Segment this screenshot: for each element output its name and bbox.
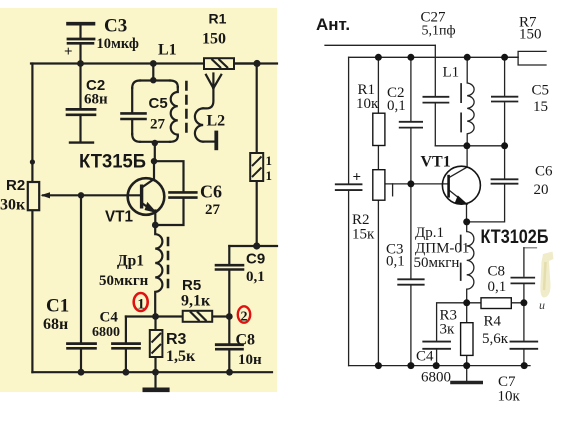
svg-text:68н: 68н bbox=[84, 92, 108, 108]
junction ground stub bbox=[463, 362, 470, 369]
svg-text:C4: C4 bbox=[416, 349, 434, 365]
capacitor C1 plates bbox=[68, 342, 96, 345]
resistor R7 box open right bbox=[518, 51, 546, 65]
watermark bbox=[539, 252, 554, 313]
svg-text:1,5к: 1,5к bbox=[166, 348, 196, 365]
svg-text:27: 27 bbox=[205, 202, 221, 218]
junction C7 on ground rail bbox=[521, 362, 528, 369]
svg-text:КТ315Б: КТ315Б bbox=[79, 152, 146, 173]
junction C4 on ground rail bbox=[433, 362, 440, 369]
inductor L2 bbox=[195, 108, 203, 141]
svg-text:C8: C8 bbox=[236, 332, 256, 349]
wire antenna down through rail bbox=[434, 45, 436, 95]
svg-text:R4: R4 bbox=[484, 314, 502, 330]
capacitor C3 plates bbox=[398, 278, 424, 280]
node mark 1 red bbox=[134, 293, 148, 311]
svg-text:50мкгн: 50мкгн bbox=[99, 273, 149, 289]
choke core dashes bbox=[460, 236, 462, 281]
wire C9 horizontal bbox=[229, 245, 277, 247]
wire right branch vertical bbox=[256, 64, 258, 154]
svg-text:C6: C6 bbox=[200, 182, 222, 202]
junction L1 on tank bottom bbox=[463, 142, 470, 149]
svg-text:C5: C5 bbox=[149, 95, 168, 112]
svg-text:C5: C5 bbox=[532, 83, 550, 99]
svg-text:10к: 10к bbox=[498, 389, 521, 405]
wire top rail bbox=[349, 56, 518, 58]
svg-text:R5: R5 bbox=[182, 277, 201, 294]
resistor R3 box bbox=[150, 330, 163, 357]
transistor VT1 base bar right bbox=[447, 175, 450, 198]
junction emitter node bbox=[463, 218, 470, 225]
svg-text:C9: C9 bbox=[246, 251, 265, 268]
svg-text:L1: L1 bbox=[158, 42, 177, 59]
left schematic background bbox=[0, 8, 277, 392]
choke Dr.1 bbox=[467, 222, 474, 303]
wire tank bottom bbox=[435, 145, 504, 147]
transistor VT1 collector lead bbox=[450, 146, 467, 177]
ground bar bbox=[452, 381, 481, 385]
junction right branch on top rail bbox=[253, 60, 260, 67]
junction collector / C6 top bbox=[151, 158, 157, 164]
junction base line / C1 bbox=[78, 192, 84, 198]
junction R4 / C8 node bbox=[520, 299, 527, 306]
junction choke bottom node bbox=[463, 299, 470, 306]
resistor R4 leads bbox=[467, 302, 524, 304]
svg-text:L2: L2 bbox=[207, 113, 226, 130]
potentiometer R2 box right bbox=[373, 170, 385, 201]
junction C5 on top rail bbox=[501, 54, 508, 61]
resistor R7 lead bbox=[505, 56, 518, 58]
svg-text:C3: C3 bbox=[104, 16, 127, 37]
resistor R4 box right bbox=[481, 298, 511, 309]
node 2 junction bbox=[226, 313, 233, 320]
svg-text:10к: 10к bbox=[356, 96, 379, 112]
wire stub to tank bbox=[152, 64, 154, 81]
junction C2 on top rail bbox=[407, 54, 414, 61]
inductor coil right arm of tank bbox=[171, 87, 178, 136]
ground bar bbox=[145, 387, 168, 392]
svg-text:L1: L1 bbox=[443, 65, 460, 81]
capacitor C27 plates bbox=[423, 96, 448, 98]
svg-text:5,1пф: 5,1пф bbox=[422, 24, 456, 39]
junction C4 on ground rail bbox=[123, 369, 130, 376]
junction L1 on top rail bbox=[464, 54, 471, 61]
transistor VT1 emitter arrow bbox=[145, 203, 156, 213]
capacitor C1 lead from base node bbox=[80, 195, 82, 342]
resistor R1 box right bbox=[373, 113, 385, 145]
capacitor C7 plates bbox=[511, 341, 538, 343]
svg-text:Др.1: Др.1 bbox=[415, 225, 444, 241]
junction R2 on ground rail bbox=[375, 362, 382, 369]
capacitor C5 plates bbox=[122, 112, 146, 115]
capacitor C8 lead and plates bbox=[228, 317, 230, 344]
svg-text:0,1: 0,1 bbox=[246, 269, 265, 285]
inductor L1 branch bbox=[467, 57, 474, 146]
capacitor C3 leads bbox=[79, 25, 81, 64]
resistor R5 box bbox=[183, 311, 213, 322]
transistor VT1 base bar bbox=[140, 185, 143, 209]
wire tank bottom to collector bbox=[154, 142, 156, 161]
svg-text:5,6к: 5,6к bbox=[482, 331, 509, 347]
svg-text:6800: 6800 bbox=[421, 370, 451, 386]
junction C5 on tank bottom bbox=[501, 142, 508, 149]
capacitor C2 branch bbox=[410, 57, 412, 120]
antenna symbol bbox=[206, 74, 221, 89]
junction R3 on ground rail bbox=[152, 369, 159, 376]
wire left branch down bbox=[348, 57, 350, 183]
wire bottom rail bbox=[32, 371, 272, 373]
C2 open end bar bbox=[70, 141, 93, 143]
svg-text:C4: C4 bbox=[100, 310, 119, 326]
capacitor C6 branch bbox=[504, 146, 506, 178]
svg-text:27: 27 bbox=[150, 117, 166, 133]
svg-text:15: 15 bbox=[533, 99, 548, 115]
junction C8 on ground rail bbox=[226, 369, 233, 376]
potentiometer R2 wiper stub bbox=[392, 184, 394, 196]
svg-text:50мкгн: 50мкгн bbox=[414, 255, 460, 271]
wire top rail bbox=[31, 62, 277, 64]
wire base line bbox=[385, 183, 449, 185]
junction C2 on base line bbox=[407, 180, 414, 187]
wire C4 branch bbox=[437, 303, 467, 340]
svg-text:0,1: 0,1 bbox=[387, 98, 406, 114]
node mark 2 red bbox=[238, 306, 250, 322]
svg-text:C1: C1 bbox=[46, 296, 69, 317]
svg-text:+: + bbox=[64, 44, 73, 60]
transistor VT1 emitter lead bbox=[143, 204, 156, 226]
svg-text:3к: 3к bbox=[440, 322, 456, 338]
junction C3 on ground rail bbox=[407, 362, 414, 369]
resistor right branch box bbox=[250, 153, 263, 181]
junction C1 on ground rail bbox=[78, 369, 85, 376]
capacitor C5 branch bbox=[504, 57, 506, 95]
svg-text:u: u bbox=[539, 298, 545, 312]
junction C9 line bbox=[253, 242, 260, 249]
transistor VT1 circle bbox=[128, 178, 165, 215]
ground stub bbox=[466, 366, 468, 381]
svg-text:150: 150 bbox=[519, 27, 542, 43]
wire antenna stem to L2 bbox=[203, 88, 213, 108]
resistor R3 leads bbox=[154, 317, 156, 373]
capacitor C6 loop bbox=[154, 161, 184, 225]
junction on left wire bbox=[30, 159, 35, 164]
L1 core dashes bbox=[460, 84, 462, 132]
svg-text:C8: C8 bbox=[488, 264, 506, 280]
svg-text:9,1к: 9,1к bbox=[181, 293, 211, 310]
svg-text:C6: C6 bbox=[535, 164, 553, 180]
junction tank stub on top rail bbox=[150, 60, 157, 67]
svg-text:R2: R2 bbox=[6, 177, 25, 194]
ground stub bbox=[154, 372, 156, 387]
svg-text:10н: 10н bbox=[238, 352, 262, 368]
transistor VT1 circle right bbox=[442, 166, 480, 204]
wire antenna input bbox=[325, 44, 435, 46]
svg-text:6800: 6800 bbox=[92, 325, 120, 340]
svg-text:1: 1 bbox=[266, 168, 273, 183]
svg-text:0,1: 0,1 bbox=[386, 254, 405, 270]
capacitor C6 plates bbox=[170, 191, 197, 194]
resistor R3 leads bbox=[466, 303, 468, 366]
capacitor C8 branch with top corner bbox=[524, 247, 537, 249]
svg-text:20: 20 bbox=[534, 182, 549, 198]
capacitor C4 plates bbox=[423, 341, 450, 343]
capacitor C4 plates bbox=[113, 342, 140, 345]
capacitor C3 plates bbox=[68, 38, 94, 41]
tank loop C5 left arm and frame bbox=[132, 81, 170, 142]
wire base line bbox=[43, 194, 142, 196]
capacitor C2 lead and plates bbox=[79, 64, 81, 108]
tank core dashed bbox=[185, 82, 188, 136]
wire L2 to bar bbox=[203, 141, 215, 143]
svg-text:68н: 68н bbox=[43, 316, 68, 333]
svg-text:VT1: VT1 bbox=[105, 209, 133, 226]
svg-text:1: 1 bbox=[266, 153, 273, 168]
resistor R3 box right bbox=[461, 323, 473, 356]
svg-text:0,1: 0,1 bbox=[488, 279, 507, 295]
svg-text:R1: R1 bbox=[209, 11, 227, 27]
wire bottom rail bbox=[349, 365, 530, 367]
choke Dr1 bbox=[155, 225, 162, 317]
wire left vertical bbox=[31, 64, 33, 373]
resistor R1 lead bbox=[377, 57, 379, 365]
svg-text:КТ3102Б: КТ3102Б bbox=[481, 227, 549, 248]
svg-text:15к: 15к bbox=[352, 227, 375, 243]
capacitor C9 lead and plates bbox=[228, 246, 230, 264]
svg-text:10мкф: 10мкф bbox=[97, 36, 139, 52]
svg-text:1: 1 bbox=[137, 297, 145, 313]
svg-text:Ант.: Ант. bbox=[316, 15, 350, 34]
junction tank bottom bbox=[152, 140, 158, 146]
capacitor C1 plus plates bbox=[336, 183, 362, 185]
node 1 junction bbox=[152, 313, 159, 320]
svg-text:R3: R3 bbox=[166, 331, 187, 348]
white cut overlay right edge bbox=[541, 26, 569, 40]
svg-text:Др1: Др1 bbox=[117, 253, 144, 270]
junction emitter / C6 bottom bbox=[152, 222, 159, 229]
transistor VT1 emitter arrow right bbox=[455, 196, 467, 204]
resistor R1 box bbox=[204, 58, 234, 69]
wire node1 to node2 bbox=[126, 315, 229, 317]
svg-text:+: + bbox=[353, 170, 362, 186]
transistor VT1 emitter lead bbox=[450, 191, 467, 222]
C3 top bar bbox=[68, 22, 94, 26]
svg-text:150: 150 bbox=[202, 31, 226, 48]
choke core dashed bbox=[167, 238, 170, 293]
svg-text:30к: 30к bbox=[0, 197, 26, 214]
svg-text:VT1: VT1 bbox=[421, 154, 451, 171]
resistor R1 leads bbox=[234, 62, 257, 64]
junction C3/C2 on top rail bbox=[77, 60, 84, 67]
transistor VT1 collector lead bbox=[143, 161, 155, 187]
potentiometer R2 box bbox=[28, 182, 39, 210]
L2 end bar bbox=[214, 133, 218, 149]
junction tank top bbox=[150, 77, 156, 83]
svg-text:2: 2 bbox=[241, 310, 248, 325]
junction R1 on top rail bbox=[375, 54, 382, 61]
capacitor C4 lead bbox=[125, 317, 127, 343]
potentiometer R2 wiper arrow bbox=[41, 192, 51, 198]
